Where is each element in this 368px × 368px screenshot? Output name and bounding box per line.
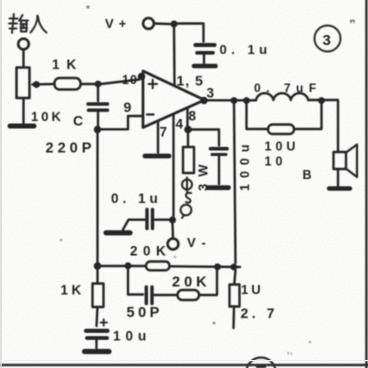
ground (pin 7)	[145, 154, 169, 159]
resistor R5 20K	[178, 290, 200, 300]
wire pin 8	[186, 109, 188, 127]
polarity +	[101, 319, 108, 325]
wire feedback row	[100, 266, 240, 267]
node pin 8	[184, 126, 192, 134]
wire step to pin 9	[101, 116, 142, 129]
resistor R3	[187, 133, 189, 146]
capacitor C5 0.1u	[145, 210, 148, 229]
wire feedback drop	[234, 104, 236, 263]
capacitor C6 50P	[145, 287, 148, 304]
potentiometer RP 10K	[17, 68, 30, 99]
wire pin 4 down	[172, 114, 174, 217]
node zobel left	[243, 97, 250, 104]
wire 50P branch	[128, 269, 143, 295]
bottom circle arc	[247, 358, 276, 368]
op-amp U1	[143, 71, 205, 128]
wire C6 to R5	[155, 294, 178, 296]
wire R1 to node	[81, 83, 95, 85]
V+ terminal	[143, 18, 154, 29]
value glyphs (rotated 650)	[181, 178, 192, 219]
resistor R6 2.7	[230, 285, 240, 307]
wire node to V- terminal	[171, 224, 174, 239]
wire wiper to R1	[39, 83, 54, 86]
border right	[365, 0, 367, 368]
resistor R1 1K	[55, 78, 81, 90]
node zobel right	[318, 97, 325, 104]
capacitor C 220P	[97, 87, 99, 101]
wire node to +input	[101, 80, 139, 85]
ground (pot)	[10, 124, 34, 129]
wire node to C5	[155, 218, 169, 220]
node wiper	[33, 81, 40, 88]
node output	[200, 97, 207, 104]
node feedback tap	[231, 97, 238, 104]
node V- branch	[169, 216, 176, 223]
border bottom	[0, 364, 368, 366]
wire R7 to C7	[97, 307, 98, 326]
node feedback left	[94, 262, 102, 270]
node feedback right	[230, 264, 237, 271]
wire V+ to node	[154, 22, 170, 25]
wire output row	[207, 99, 256, 101]
resistor R2 10	[268, 125, 294, 135]
capacitor C2 0.1u	[196, 43, 215, 47]
capacitor C4	[211, 147, 228, 151]
wire C5 to ground	[123, 220, 145, 230]
wire input lead	[22, 50, 24, 68]
wire pot bottom	[22, 98, 24, 123]
ground (C5)	[106, 230, 130, 235]
wire row to R6	[234, 270, 235, 284]
resistor R7 1K	[93, 284, 104, 308]
circled 3	[315, 26, 341, 52]
wire V+ to C2	[177, 24, 204, 42]
V- terminal	[168, 239, 179, 250]
input terminal J1	[18, 39, 29, 50]
capacitor C7 10u	[86, 329, 108, 333]
resistor R4 20K	[146, 262, 170, 271]
node input net	[95, 81, 102, 88]
node +in	[138, 73, 146, 81]
wire inductor to speaker	[308, 100, 338, 151]
ground (C7)	[85, 349, 110, 354]
node C junction	[94, 126, 101, 133]
speaker B	[334, 152, 347, 169]
wire zobel loop	[247, 103, 322, 129]
speck marks	[60, 5, 355, 356]
wire R6 down	[232, 307, 235, 329]
wire V+ feed to pins 1,5	[173, 27, 176, 86]
node 50P branch	[125, 262, 132, 269]
ground (speaker)	[329, 186, 350, 190]
ground (C4)	[208, 185, 229, 190]
wire left rail down	[96, 133, 98, 263]
input label 输入	[9, 14, 47, 33]
wire pin8 node to C4	[192, 130, 220, 146]
inductor L1	[256, 93, 308, 100]
wire R5 up to row	[200, 270, 218, 295]
node R5 top	[214, 263, 221, 270]
wire node to R7	[96, 269, 98, 283]
wire pin 7	[157, 122, 159, 153]
ground (C2)	[194, 64, 216, 69]
node V+	[171, 21, 178, 28]
